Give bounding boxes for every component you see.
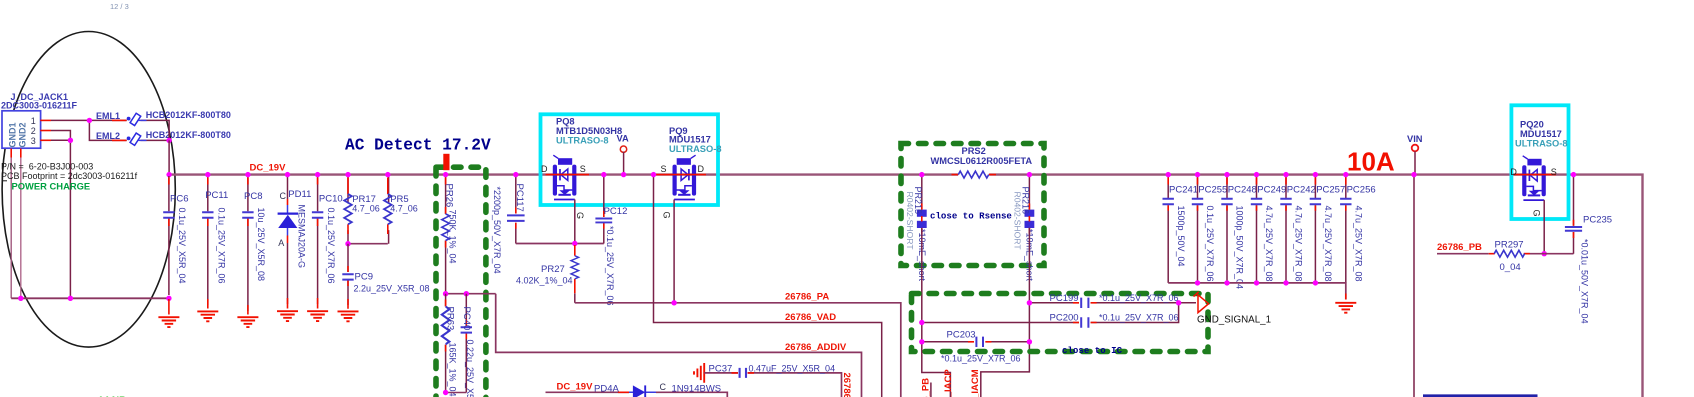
wire gate node to PC235 xyxy=(1544,253,1573,255)
ground (PC9) xyxy=(338,311,359,321)
wire 26786_ADDIV xyxy=(496,294,862,397)
svg-text:1: 1 xyxy=(31,116,36,126)
svg-text:PQ8: PQ8 xyxy=(556,116,575,126)
rotated ground (PC37) xyxy=(694,363,704,383)
resistor PR63 165K xyxy=(442,294,458,397)
ferrite bead EML2 HCB2012KF-800T80 xyxy=(127,133,141,145)
junction rail/PC6 ground xyxy=(166,296,171,301)
svg-text:PC241: PC241 xyxy=(1169,185,1198,196)
wire EML1 output xyxy=(141,120,170,140)
svg-text:4.7u_25V_X7R_08: 4.7u_25V_X7R_08 xyxy=(1323,206,1333,282)
svg-text:GND_SIGNAL_1: GND_SIGNAL_1 xyxy=(1197,314,1271,325)
junction rail/shield xyxy=(18,296,23,301)
capacitor bank PC242 xyxy=(1280,176,1316,283)
pin 1 stub (red) xyxy=(40,119,51,121)
ground (PC11) xyxy=(197,311,218,321)
junction pin2/pin3 xyxy=(68,138,73,143)
svg-text:26786_IACM: 26786_IACM xyxy=(970,369,981,397)
wire PD4A cathode xyxy=(656,392,727,397)
capacitor PC117 2200p xyxy=(492,176,525,274)
tick before POWER CHARGE xyxy=(2,180,7,182)
jumper PR215 R0402-SHORT xyxy=(905,187,927,282)
svg-text:0.1u_25V_X7R_06: 0.1u_25V_X7R_06 xyxy=(326,208,336,284)
svg-text:EML1: EML1 xyxy=(96,111,120,121)
green dashed box (AC detect divider) xyxy=(436,167,486,397)
wire shield pin a down xyxy=(10,158,12,299)
svg-text:26786_PA: 26786_PA xyxy=(785,292,829,303)
junction PA/PQ9 gate xyxy=(671,300,676,305)
svg-text:PC8: PC8 xyxy=(244,191,262,202)
svg-text:PC37: PC37 xyxy=(709,363,733,374)
svg-text:PD4A: PD4A xyxy=(594,383,619,394)
junction gate/PR297/PC235 xyxy=(1542,251,1547,256)
transistor PQ9 MDU1517 (mirrored) xyxy=(673,155,697,199)
svg-text:ULTRASO-8: ULTRASO-8 xyxy=(556,136,609,146)
svg-text:PR297: PR297 xyxy=(1495,240,1524,251)
svg-text:0_04: 0_04 xyxy=(1500,262,1521,273)
wire PD4A anode xyxy=(546,391,630,393)
green dashed box (close to IC) xyxy=(912,294,1209,352)
junction node/PC40 xyxy=(464,291,469,296)
wire pin2 xyxy=(51,131,70,299)
svg-text:2: 2 xyxy=(31,126,36,136)
blue lead EML2 xyxy=(139,139,147,141)
capacitor bank PC241 xyxy=(1163,176,1199,283)
sense resistor PRS2 WMCSL0612R005FETA xyxy=(931,146,1033,178)
svg-text:POWER CHARGE: POWER CHARGE xyxy=(12,181,91,192)
svg-text:0.1u_25V_X7R_06: 0.1u_25V_X7R_06 xyxy=(216,208,226,284)
svg-text:26786_ADDIV: 26786_ADDIV xyxy=(785,342,847,353)
wire EML junction down to bus xyxy=(168,140,170,174)
svg-text:PC203: PC203 xyxy=(947,330,976,341)
svg-text:PC12: PC12 xyxy=(604,206,628,217)
svg-text:DC_19V: DC_19V xyxy=(557,382,594,393)
capacitor bank PC248 xyxy=(1221,176,1257,289)
svg-text:*0.1u_25V_X7R_06: *0.1u_25V_X7R_06 xyxy=(1099,293,1179,303)
wire pin3 xyxy=(51,139,70,141)
svg-text:10A: 10A xyxy=(1347,147,1395,177)
svg-text:G: G xyxy=(575,212,585,219)
svg-text:ULTRASO-8: ULTRASO-8 xyxy=(669,144,722,154)
svg-text:26786_VAD: 26786_VAD xyxy=(785,312,836,323)
ground (PD11) xyxy=(277,311,298,321)
svg-text:HCB2012KF-800T80: HCB2012KF-800T80 xyxy=(146,130,231,140)
svg-text:PC257: PC257 xyxy=(1316,185,1345,196)
green dashed box (Rsense) xyxy=(901,144,1044,266)
svg-text:4.7_06: 4.7_06 xyxy=(390,204,418,214)
svg-text:PC242: PC242 xyxy=(1287,185,1316,196)
wire PQ20 gate down xyxy=(1543,200,1545,254)
wire PQ8 gate down xyxy=(574,200,576,244)
svg-text:0.47uF_25V_X5R_04: 0.47uF_25V_X5R_04 xyxy=(749,363,836,373)
svg-text:PC255: PC255 xyxy=(1198,185,1227,196)
pin 3 stub (red) xyxy=(40,139,51,141)
svg-text:PC11: PC11 xyxy=(205,190,228,201)
PQ20 pin stubs (red) xyxy=(1514,174,1556,176)
svg-text:ULTRASO-8: ULTRASO-8 xyxy=(1515,138,1568,148)
svg-text:D: D xyxy=(1510,167,1517,177)
svg-text:PC40: PC40 xyxy=(461,307,472,331)
junction rail/pin2 xyxy=(68,296,73,301)
svg-text:2DC3003-016211F: 2DC3003-016211F xyxy=(1,101,78,111)
svg-text:GND1: GND1 xyxy=(8,122,18,147)
capacitor PC235 0.01u xyxy=(1565,176,1612,324)
svg-text:MESMAJ20A-G: MESMAJ20A-G xyxy=(297,205,307,269)
junction gate rail xyxy=(572,241,577,246)
svg-text:S: S xyxy=(580,164,586,174)
svg-text:*0.1u_25V_X7R_06: *0.1u_25V_X7R_06 xyxy=(941,354,1021,364)
svg-text:R0402-SHORT: R0402-SHORT xyxy=(1013,192,1023,251)
jack ground rail xyxy=(11,297,169,299)
svg-text:0.22u_25V_X5R_04: 0.22u_25V_X5R_04 xyxy=(465,340,475,397)
svg-text:PR27: PR27 xyxy=(541,264,565,275)
transistor PQ8 MTB1D5N03H8 xyxy=(553,155,577,199)
transistor PQ20 MDU1517 xyxy=(1522,156,1546,200)
capacitor PC40 0.22u xyxy=(461,294,475,397)
wire 26786_PA xyxy=(575,303,901,397)
svg-text:EML2: EML2 xyxy=(96,131,120,141)
junctions cap bank bottom xyxy=(1195,280,1200,285)
capacitor PC199 xyxy=(1029,293,1196,308)
resistor PR297 0_04 xyxy=(1437,240,1544,274)
wire cap bank bottom bus xyxy=(1168,283,1346,300)
junction PR26/PR63 xyxy=(443,291,448,296)
svg-text:*0.1u_25V_X7R_06: *0.1u_25V_X7R_06 xyxy=(1099,313,1179,323)
svg-text:WMCSL0612R005FETA: WMCSL0612R005FETA xyxy=(931,156,1033,166)
junction bus/EML drop xyxy=(166,172,171,177)
svg-text:4.7u_25V_X7R_08: 4.7u_25V_X7R_08 xyxy=(1294,206,1304,282)
svg-text:2.2u_25V_X5R_08: 2.2u_25V_X5R_08 xyxy=(354,284,430,294)
svg-text:750K_1%_04: 750K_1%_04 xyxy=(448,210,458,264)
svg-text:26786_PB: 26786_PB xyxy=(1437,242,1482,253)
junction pin1/EML2 branch xyxy=(87,118,92,123)
svg-text:*2200p_50V_X7R_04: *2200p_50V_X7R_04 xyxy=(492,187,502,274)
svg-text:PC199: PC199 xyxy=(1050,293,1079,304)
svg-text:0.1u_25V_X5R_04: 0.1u_25V_X5R_04 xyxy=(177,208,187,284)
connector J_DC_JACK1 body xyxy=(2,111,41,148)
svg-text:PC200: PC200 xyxy=(1050,313,1079,324)
title block top edge (blue) xyxy=(1423,394,1538,397)
svg-text:PC256: PC256 xyxy=(1347,185,1376,196)
PQ9 pin stubs (red) xyxy=(656,174,707,176)
svg-text:D: D xyxy=(698,164,705,174)
capacitor PC203 xyxy=(922,330,1030,364)
svg-text:1000p_50V_X7R_04: 1000p_50V_X7R_04 xyxy=(1235,206,1245,290)
pin 2 stub (red) xyxy=(40,130,51,132)
svg-text:R0402-SHORT: R0402-SHORT xyxy=(905,192,915,251)
wire VIN down xyxy=(1413,175,1415,397)
wire sense right down xyxy=(981,228,1030,397)
svg-text:D: D xyxy=(541,164,548,174)
capacitor bank PC257 xyxy=(1310,176,1346,283)
svg-text:PC117: PC117 xyxy=(514,184,525,212)
svg-text:26786_PB: 26786_PB xyxy=(921,378,932,397)
svg-text:PR63: PR63 xyxy=(445,307,456,331)
capacitor PC11 xyxy=(202,176,228,309)
svg-text:4.7u_25V_X7R_08: 4.7u_25V_X7R_08 xyxy=(1264,206,1274,282)
capacitor PC37 0.47uF xyxy=(704,363,841,397)
wire divider node rail xyxy=(446,293,496,295)
ground (cap bank) xyxy=(1335,303,1356,313)
svg-text:PCB Footprint = 2dc3003-016211: PCB Footprint = 2dc3003-016211f xyxy=(1,171,138,181)
ground (PC10) xyxy=(307,311,328,321)
svg-text:26786_ADDIV: 26786_ADDIV xyxy=(841,373,852,397)
svg-text:PR26: PR26 xyxy=(444,184,455,208)
svg-text:4.7u_25V_X7R_08: 4.7u_25V_X7R_08 xyxy=(1354,206,1364,282)
PQ8 pin stubs (red) xyxy=(546,174,590,176)
highlight ellipse around DC jack area xyxy=(2,32,175,348)
svg-text:PC10: PC10 xyxy=(319,194,343,205)
svg-text:10u_25V_X5R_08: 10u_25V_X5R_08 xyxy=(256,208,266,282)
svg-text:VA: VA xyxy=(617,134,630,144)
svg-text:4.02K_1%_04: 4.02K_1%_04 xyxy=(516,276,573,286)
svg-text:S: S xyxy=(1551,167,1557,177)
capacitor PC9 2.2u xyxy=(342,244,429,309)
svg-text:12 / 3: 12 / 3 xyxy=(110,2,129,11)
svg-text:PC9: PC9 xyxy=(355,272,373,283)
svg-text:PC6: PC6 xyxy=(170,193,188,204)
wire gate rail PC117/PQ8-G/PR27/PC12 xyxy=(516,243,604,245)
svg-text:PC249: PC249 xyxy=(1257,185,1286,196)
svg-text:PD11: PD11 xyxy=(288,189,311,200)
svg-text:close to IC: close to IC xyxy=(1062,345,1123,356)
svg-text:PC235: PC235 xyxy=(1583,215,1612,226)
capacitor PC6 xyxy=(163,176,188,315)
resistor PR27 4.02K xyxy=(516,245,579,303)
svg-text:VIN: VIN xyxy=(1407,134,1423,144)
wire EML2 output xyxy=(141,139,170,141)
ground (PC6 / jack) xyxy=(158,317,179,327)
resistor PR17 4.7_06 xyxy=(344,176,380,244)
svg-text:PRS2: PRS2 xyxy=(962,146,986,156)
capacitor PC8 xyxy=(242,176,266,315)
wire sense tap left xyxy=(921,175,923,210)
svg-text:C: C xyxy=(660,382,667,392)
arrow GND_SIGNAL_1 xyxy=(1198,295,1209,313)
wire PR63/PC40 bottom rail xyxy=(446,392,467,394)
svg-text:PC248: PC248 xyxy=(1228,185,1257,196)
net stub 26786_PB (bottom) xyxy=(930,383,932,397)
wire sense tap right xyxy=(1028,175,1030,210)
svg-text:4.7_06: 4.7_06 xyxy=(352,204,380,214)
wire PR17/PR5 bottom rail xyxy=(348,243,388,245)
svg-text:MTB1D5N03H8: MTB1D5N03H8 xyxy=(556,126,622,136)
blue lead EML1 xyxy=(139,119,147,121)
capacitor bank PC255 xyxy=(1192,176,1228,283)
svg-text:HCB2012KF-800T80: HCB2012KF-800T80 xyxy=(146,110,231,120)
wire 26786_VAD xyxy=(654,175,882,397)
svg-text:AC Detect 17.2V: AC Detect 17.2V xyxy=(345,137,491,155)
svg-text:C: C xyxy=(280,191,287,201)
capacitor bank PC249 xyxy=(1251,176,1287,283)
capacitor PC10 xyxy=(312,176,343,309)
resistor PR26 750K xyxy=(442,176,458,294)
connector bottom pin stubs (red) xyxy=(11,149,21,158)
svg-text:A: A xyxy=(278,238,284,248)
junction PR17/PC9 xyxy=(345,241,350,246)
wire pin1 to EML junction xyxy=(51,119,127,121)
svg-text:P/N = 6-20-B3J00-003: P/N = 6-20-B3J00-003 xyxy=(1,162,93,172)
svg-text:S: S xyxy=(661,164,667,174)
svg-text:*0.1u_25V_X7R_06: *0.1u_25V_X7R_06 xyxy=(605,226,615,306)
jumper PR216 R0402-SHORT xyxy=(1013,187,1035,282)
svg-text:G: G xyxy=(661,212,671,219)
junction PR63 bottom xyxy=(443,390,448,395)
cyan box around PQ8/PQ9 xyxy=(541,114,719,205)
capacitor PC200 xyxy=(922,303,1179,328)
svg-text:G: G xyxy=(1532,210,1542,217)
wire DC_19V main bus xyxy=(169,175,1643,397)
cyan box around PQ20 xyxy=(1511,105,1568,219)
svg-text:0.1u_25V_X7R_06: 0.1u_25V_X7R_06 xyxy=(1205,206,1215,282)
ground (PC8) xyxy=(237,317,258,327)
svg-text:1500p_50V_04: 1500p_50V_04 xyxy=(1176,206,1186,267)
capacitor PC12 xyxy=(595,176,627,306)
svg-text:165K_1%_04: 165K_1%_04 xyxy=(448,343,458,397)
svg-text:DC_19V: DC_19V xyxy=(250,162,287,173)
resistor PR5 4.7_06 xyxy=(384,176,418,244)
svg-text:3: 3 xyxy=(31,136,36,146)
svg-text:close to Rsense: close to Rsense xyxy=(930,210,1012,221)
diode PD4A 1N914BWS xyxy=(618,391,629,393)
wire pin1 branch down to EML2 row xyxy=(89,120,126,140)
svg-text:26786_IACP: 26786_IACP xyxy=(943,369,954,397)
svg-text:*0.01u_50V_X7R_04: *0.01u_50V_X7R_04 xyxy=(1580,239,1590,324)
wire PQ9 gate down xyxy=(673,200,675,303)
red tick marker on green box xyxy=(443,154,449,170)
capacitor bank PC256 xyxy=(1340,176,1376,283)
junction EML outputs xyxy=(166,138,171,143)
ferrite bead EML1 HCB2012KF-800T80 xyxy=(127,113,141,125)
wire shield pin b down xyxy=(20,158,22,299)
diode PD11 MESMAJ20A-G xyxy=(278,176,312,309)
svg-text:GND2: GND2 xyxy=(18,122,28,147)
wire sense left down xyxy=(922,228,951,397)
